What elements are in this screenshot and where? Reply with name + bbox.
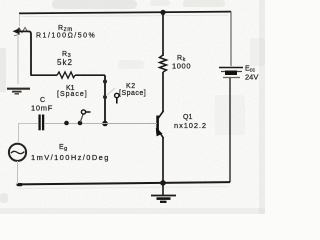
wire emitter to bottom rail: [162, 137, 164, 183]
svg-text:K2: K2: [126, 83, 136, 90]
svg-text:[Space]: [Space]: [57, 91, 88, 98]
scan noise: [0, 0, 265, 214]
svg-text:Eg: Eg: [59, 144, 68, 152]
wire bias horizontal run: [31, 74, 57, 76]
wire Rk to collector: [162, 72, 164, 112]
wire R3 to bias-node corner: [75, 74, 105, 76]
ground (bottom): [151, 183, 176, 202]
wire wiper drop: [29, 31, 31, 75]
AC source Eg: [9, 144, 26, 161]
node emitter/ground junction: [160, 180, 166, 186]
svg-text:nx102.2: nx102.2: [174, 121, 207, 130]
potentiometer Rzm: [13, 14, 30, 36]
svg-text:1mV/100Hz/0Deg: 1mV/100Hz/0Deg: [31, 153, 110, 162]
svg-text:24V: 24V: [245, 73, 258, 82]
transistor Q1 (PNP): [156, 111, 164, 138]
wire bottom rail: [17, 182, 230, 184]
svg-text:R1/100Ω/50%: R1/100Ω/50%: [36, 33, 96, 40]
node base junction: [102, 121, 108, 127]
battery Ecc: [219, 68, 243, 78]
node at top of Rk branch: [160, 10, 165, 15]
resistor Rk (vertical zigzag): [160, 55, 167, 72]
wire base lead: [105, 123, 157, 125]
switch K2: [103, 80, 119, 104]
capacitor C: [40, 115, 44, 131]
wire collector branch from rail to Rk: [162, 12, 164, 56]
ground (left): [7, 89, 30, 94]
svg-text:1000: 1000: [172, 62, 191, 71]
svg-text:5k2: 5k2: [57, 58, 73, 67]
svg-text:10mF: 10mF: [31, 104, 53, 113]
resistor R3 (horizontal zigzag): [57, 72, 75, 78]
ghost echo under bottom rail: [18, 187, 228, 189]
ghost echo under top rail: [22, 15, 228, 16]
wire right drop from battery to bottom rail: [229, 78, 231, 182]
wire source to bottom rail (faint): [17, 161, 19, 184]
wire pot lower terminal to ground (faint): [17, 36, 19, 84]
svg-text:[Space]: [Space]: [119, 90, 146, 97]
wire battery drop: [230, 12, 232, 66]
wire drop to base node with switch K2: [104, 75, 106, 123]
switch K1: [64, 110, 90, 125]
wire cap to source (faint): [19, 124, 39, 143]
wire top rail: [19, 12, 231, 14]
wire cap to switch K1: [44, 123, 105, 125]
svg-text:Q1: Q1: [183, 114, 192, 121]
